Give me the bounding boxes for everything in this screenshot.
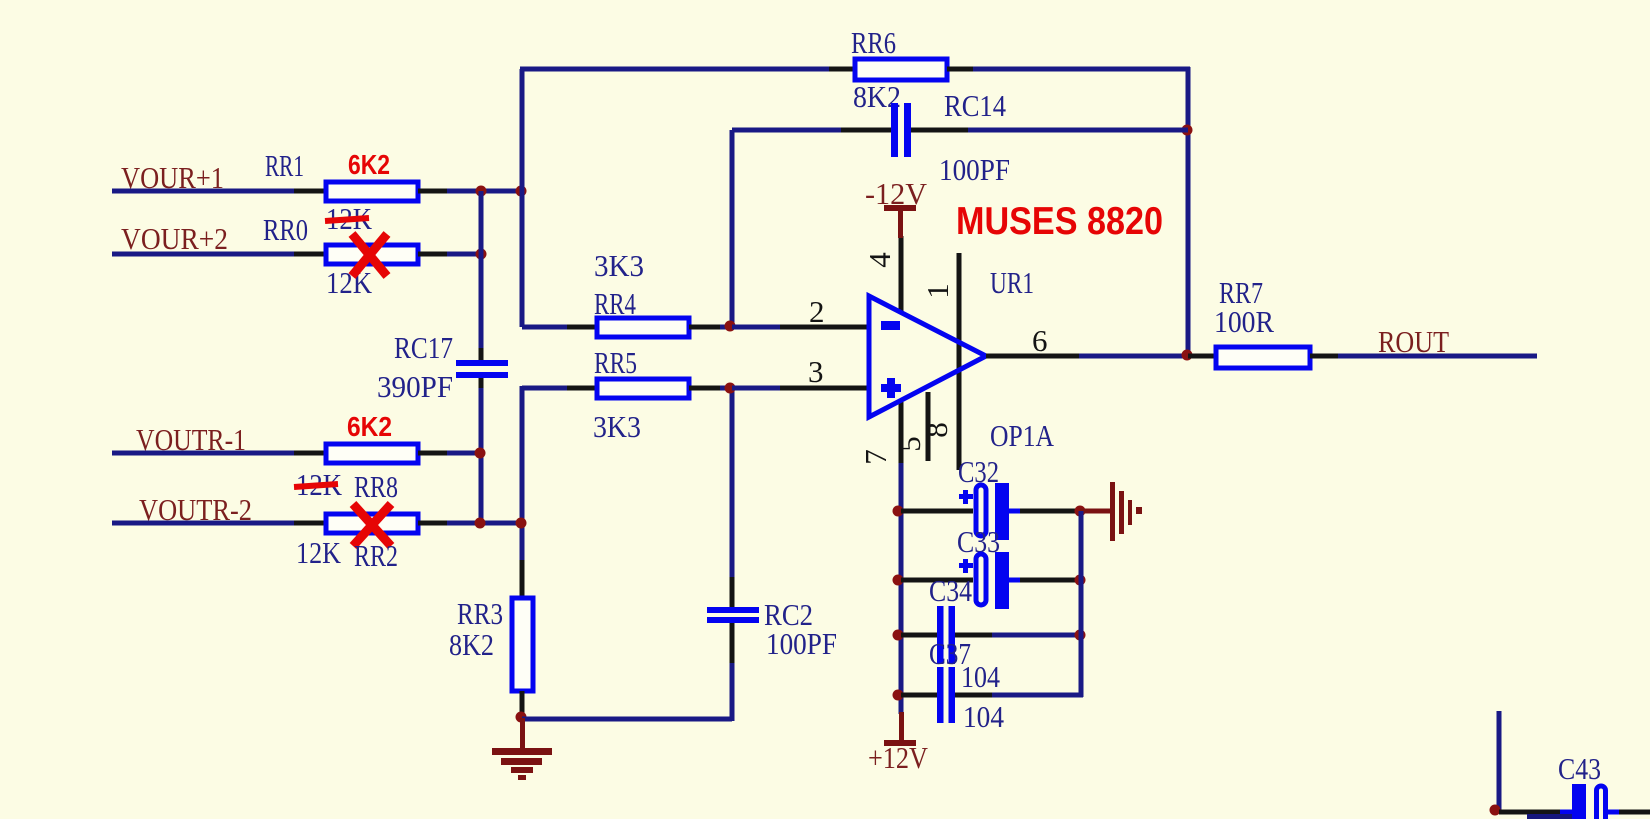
wire RR3 top lead	[520, 560, 525, 600]
ground symbol	[492, 718, 552, 780]
wire right bypass bus	[1079, 511, 1084, 697]
svg-text:6K2: 6K2	[348, 149, 390, 180]
capacitor C43 (bottom right, clipped)	[1497, 711, 1502, 812]
svg-text:104: 104	[961, 659, 1000, 694]
power +12V symbol	[868, 712, 929, 775]
node junction dot pin3	[725, 383, 736, 394]
wire RR7 right lead	[1310, 354, 1340, 359]
wire feedback right vertical	[1186, 67, 1191, 356]
resistor RR7	[1216, 347, 1310, 368]
C37 plates	[937, 667, 944, 723]
resistor RR3	[512, 598, 533, 691]
resistor RR4	[597, 318, 689, 337]
op-amp U1 triangle	[869, 296, 986, 417]
wire RR1 left lead	[294, 189, 328, 194]
svg-text:4: 4	[862, 252, 897, 268]
wire RR6 right lead	[947, 67, 975, 72]
wire RR2 left lead	[294, 521, 328, 526]
wire RC2 top lead	[730, 577, 735, 607]
wire VOUTR-2 input	[112, 521, 296, 526]
node junction dot A1	[476, 186, 487, 197]
minus mark	[881, 321, 900, 330]
svg-text:VOUTR-1: VOUTR-1	[136, 422, 246, 457]
svg-text:390PF: 390PF	[377, 369, 453, 404]
earth ground symbol (rotated)	[1110, 482, 1142, 541]
wire RR1 right lead	[418, 189, 449, 194]
wire RC14 left lead	[841, 128, 892, 133]
pin 3 lead	[780, 386, 869, 391]
op-amp pin 5 line	[926, 392, 931, 461]
red X over RR0	[352, 234, 387, 276]
svg-text:12K: 12K	[296, 535, 342, 570]
wire to earth ground	[1080, 509, 1110, 514]
svg-text:+12V: +12V	[868, 740, 929, 775]
svg-text:RR8: RR8	[354, 469, 398, 504]
wire vertical bus A upper part	[479, 191, 484, 350]
resistor RR5	[597, 379, 689, 398]
node junction dot A2	[516, 186, 527, 197]
capacitor RC17	[456, 360, 508, 366]
wire VOUR+1 input	[112, 189, 296, 194]
svg-text:OP1A: OP1A	[990, 418, 1055, 453]
svg-text:UR1: UR1	[990, 265, 1034, 300]
capacitor C33 (polarized) row	[901, 578, 973, 583]
svg-text:7: 7	[858, 449, 893, 465]
wire op-amp supply rail (pin7 down)	[899, 463, 904, 714]
wire RR8 right lead	[418, 451, 449, 456]
wire RC17 bottom lead	[479, 378, 484, 413]
svg-text:100PF: 100PF	[939, 152, 1010, 187]
svg-text:6: 6	[1032, 323, 1048, 358]
rail junction dots	[893, 506, 904, 517]
node junction dot output	[1182, 350, 1193, 361]
svg-text:C34: C34	[929, 573, 972, 608]
resistor RR2 (crossed out)	[326, 514, 418, 533]
wire vertical bus B2 (RR5 node down to RR3)	[520, 386, 525, 562]
C32 plates	[976, 485, 986, 536]
resistor RR0 (crossed out)	[326, 245, 418, 264]
wire ROUT	[1338, 354, 1537, 359]
wire RC2 bottom lead	[730, 661, 735, 721]
wire RR6 left lead	[829, 67, 857, 72]
wire RR4 right lead	[689, 325, 722, 330]
svg-text:3K3: 3K3	[594, 248, 644, 283]
node junction dot RC14 right	[1182, 125, 1193, 136]
C33 plates	[976, 554, 986, 605]
power -12V symbol	[865, 176, 928, 238]
plus mark C32	[959, 494, 973, 499]
wire RR0 left lead	[294, 252, 328, 257]
svg-text:RR1: RR1	[265, 148, 304, 183]
svg-text:RR0: RR0	[263, 212, 308, 247]
wire RR0 right lead	[418, 252, 449, 257]
svg-text:RR5: RR5	[594, 345, 637, 380]
wire to pin 3	[732, 386, 782, 391]
svg-text:MUSES 8820: MUSES 8820	[956, 200, 1163, 243]
svg-text:12K: 12K	[326, 265, 373, 300]
wire RC14 right run	[968, 128, 1188, 133]
plus mark C33	[959, 563, 973, 568]
node junction dot	[475, 448, 486, 459]
wire RR2 right lead	[418, 521, 449, 526]
wire RC14 left run	[732, 128, 843, 133]
svg-text:100R: 100R	[1214, 304, 1274, 339]
wire top feedback run to RR6	[520, 67, 831, 72]
resistor RR8	[326, 444, 418, 463]
wire RR7 left lead	[1188, 354, 1218, 359]
capacitor RC2	[707, 607, 759, 613]
svg-text:ROUT: ROUT	[1378, 324, 1449, 359]
wire RR5 right lead	[689, 386, 722, 391]
capacitor C34 row	[901, 633, 938, 638]
node junction dots	[475, 518, 486, 529]
wire RC14 right lead	[911, 128, 970, 133]
op-amp pin1/8 vertical line	[957, 253, 962, 470]
svg-text:8: 8	[919, 422, 954, 438]
pin 2 lead	[780, 325, 869, 330]
capacitor C32 (polarized) row	[901, 509, 973, 514]
op-amp pin 4 line	[899, 236, 904, 314]
wire VOUR+2 input	[112, 252, 296, 257]
wire output run	[1079, 354, 1188, 359]
wire ground run to RC2	[522, 717, 732, 722]
svg-text:RR6: RR6	[851, 25, 896, 60]
op-amp pin 7 line	[899, 402, 904, 465]
resistor RR1	[326, 182, 418, 201]
wire RR5 left lead	[567, 386, 599, 391]
svg-text:5: 5	[892, 436, 927, 452]
wire RR5 input corner from bus B2	[522, 386, 569, 391]
svg-text:3: 3	[808, 354, 824, 389]
node junction dot ground node	[516, 712, 527, 723]
wire feedback right run	[973, 67, 1190, 72]
wire vertical bus B (feedback to RR4 node)	[520, 69, 525, 327]
svg-text:104: 104	[963, 699, 1004, 734]
wire between dots	[481, 521, 522, 526]
clipped net label text under C43 wire	[1527, 814, 1572, 819]
wire RR8 left lead	[294, 451, 328, 456]
wire vertical bus C (RC14 to RC2)	[730, 130, 735, 329]
resistor RR6	[855, 59, 947, 80]
wire RR4 input from bus B	[522, 325, 569, 330]
svg-text:RC17: RC17	[394, 330, 453, 365]
capacitor C37 row	[901, 693, 938, 698]
node junction dot pin2	[725, 321, 736, 332]
svg-text:8K2: 8K2	[449, 627, 494, 662]
red X over RR2	[353, 504, 391, 546]
wire RR4 left lead	[567, 325, 599, 330]
svg-text:RR3: RR3	[457, 596, 503, 631]
plus mark	[881, 384, 901, 392]
capacitor RC14	[891, 103, 898, 157]
svg-text:VOUR+2: VOUR+2	[121, 221, 228, 256]
wire RC17 top lead	[479, 348, 484, 360]
C34 plates	[937, 606, 944, 664]
svg-text:6K2: 6K2	[347, 411, 392, 442]
svg-text:3K3: 3K3	[593, 409, 641, 444]
wire VOUTR-1 input	[112, 451, 296, 456]
svg-text:RR2: RR2	[354, 538, 398, 573]
svg-text:VOUR+1: VOUR+1	[121, 160, 224, 195]
wire to pin 2	[732, 325, 782, 330]
wire vertical bus A lower part	[479, 388, 484, 523]
svg-text:VOUTR-2: VOUTR-2	[139, 492, 252, 527]
svg-text:RC14: RC14	[944, 88, 1006, 123]
wire between node A dots	[481, 189, 522, 194]
node junction dot on RR0 output	[476, 249, 487, 260]
wire RR3 bottom lead	[520, 691, 525, 718]
svg-text:RR4: RR4	[594, 286, 636, 321]
pin 6 output lead	[986, 354, 1081, 359]
svg-text:2: 2	[809, 294, 825, 329]
svg-text:1: 1	[920, 283, 955, 299]
svg-text:C43: C43	[1558, 751, 1601, 786]
svg-text:100PF: 100PF	[766, 626, 837, 661]
